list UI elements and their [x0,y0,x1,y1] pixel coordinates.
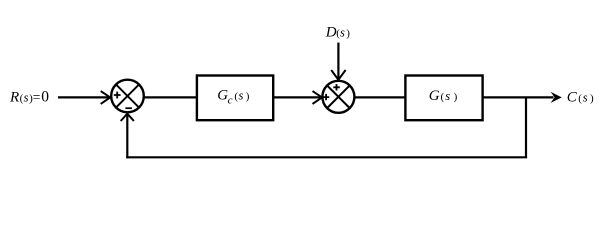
wire input to summer S1 [58,96,110,98]
wire block G to output [483,96,554,98]
svg-text:G(s): G(s) [429,88,458,104]
wire D(s) down to summer S2 [337,43,339,80]
feedback wire bottom horizontal [126,156,527,158]
feedback wire down from output node [525,97,527,157]
feedback wire up to summer S1 [126,114,128,158]
controller block Gc(s) [197,76,273,121]
svg-text:Gc(s): Gc(s) [217,87,249,106]
arrowhead into summer S1 [101,91,111,104]
summer S2 plus sign (left input) [323,94,329,100]
arrowhead into summer S1 bottom [121,114,134,121]
arrowhead into summer S2 [313,91,323,104]
summer S2 plus sign (top input) [333,84,340,90]
summing junction S1 circle [111,80,144,113]
output arrowhead [551,92,562,103]
svg-text:C(s): C(s) [567,90,594,106]
svg-text:R(s)=0: R(s)=0 [9,88,49,105]
summer S1 plus sign (left input) [114,92,121,99]
svg-text:D(s): D(s) [325,24,350,40]
summer S2 X cross [327,86,349,108]
wire summer S2 to block G [355,96,406,98]
summing junction S2 circle [322,81,354,113]
plant block G(s) [405,76,482,121]
wire block Gc to summer S2 [273,96,321,98]
summer S1 minus sign (bottom feedback input) [125,107,131,109]
summer S1 X cross [116,85,139,108]
arrowhead into summer S2 top [331,70,345,80]
wire summer S1 to block Gc [144,96,197,98]
